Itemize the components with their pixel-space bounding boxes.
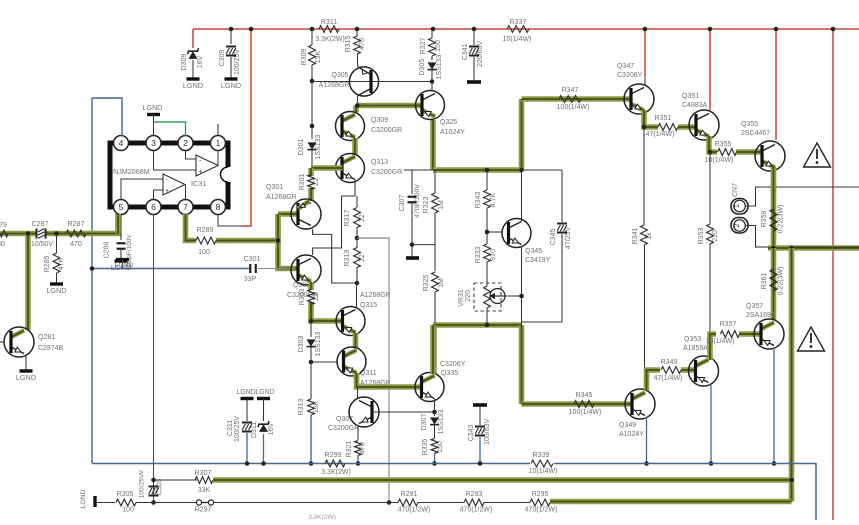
svg-text:C3206Y: C3206Y — [617, 72, 643, 79]
wire Q309 emitter to Q313 collector (olive) — [352, 138, 358, 155]
ground bar on LGND rail — [116, 258, 129, 261]
wire red drop to Q355 collector — [775, 29, 777, 140]
wire C343 top — [479, 405, 481, 425]
wire R305 to R297 — [136, 502, 197, 504]
svg-text:R309: R309 — [301, 49, 308, 66]
junction on +V rail x=433 — [431, 27, 436, 32]
svg-text:D307: D307 — [421, 414, 428, 431]
wire input line (olive, left edge) — [0, 231, 36, 237]
transistor Q349 — [632, 393, 645, 400]
capacitor C341 — [469, 46, 479, 48]
svg-text:3.3K(2W): 3.3K(2W) — [308, 514, 336, 520]
transistor Q355 — [762, 145, 775, 152]
resistor R293 — [464, 499, 484, 506]
resistor R321 — [355, 441, 362, 456]
resistor R311 — [319, 26, 339, 33]
svg-text:100(1/4W): 100(1/4W) — [569, 409, 602, 416]
trimmer VR31 resistor element — [484, 286, 491, 308]
svg-text:Q345: Q345 — [525, 248, 542, 255]
wire VR31 wiper to emitter column — [505, 295, 522, 297]
svg-text:R313: R313 — [298, 399, 305, 416]
junction on +V rail x=251 — [249, 27, 254, 32]
transistor Q309 — [342, 115, 355, 122]
wire Q281 base lead — [0, 341, 4, 343]
wire olive to Q347 base — [522, 96, 631, 102]
svg-text:Q315: Q315 — [360, 302, 377, 309]
svg-text:R335: R335 — [422, 439, 429, 456]
wire Q301 base lead (olive) — [278, 211, 297, 217]
svg-text:22: 22 — [313, 178, 320, 186]
svg-text:C343: C343 — [468, 425, 475, 442]
wire LGND blue rail bottom right — [554, 464, 816, 521]
transistor Q311 — [344, 350, 357, 357]
junction on +V rail x=776 — [774, 27, 779, 32]
svg-text:R285: R285 — [44, 256, 51, 273]
wire Q307 emitter to R321 — [357, 426, 359, 440]
svg-text:R337: R337 — [510, 19, 527, 26]
wire R317 to R319 — [356, 227, 358, 248]
svg-text:D309: D309 — [181, 54, 188, 71]
svg-text:R289: R289 — [197, 227, 214, 234]
transistor Q307 — [359, 401, 372, 408]
wire R321 to blue rail — [357, 455, 359, 464]
wire R325 to olive — [434, 292, 436, 323]
resistor R287 — [66, 230, 86, 237]
svg-text:R325: R325 — [423, 275, 430, 292]
svg-text:LGND: LGND — [115, 262, 134, 269]
svg-text:79: 79 — [0, 222, 7, 229]
IC31 pin 7 — [178, 200, 193, 215]
resistor R341 — [641, 225, 648, 245]
resistor R299 — [325, 460, 345, 467]
IC31 pin 5 — [114, 200, 129, 215]
svg-text:22: 22 — [359, 254, 366, 262]
svg-text:D305: D305 — [419, 59, 426, 76]
diode D301 — [308, 142, 317, 149]
wire IC pin7 to opampB out — [185, 185, 187, 201]
junction output node — [771, 246, 776, 251]
IC31 notch — [223, 167, 233, 182]
wire C343 to blue rail — [479, 437, 481, 464]
wire output return olive y=501.5 — [550, 499, 792, 505]
wire node to D301 — [311, 126, 313, 139]
svg-text:1k: 1k — [646, 232, 653, 240]
resistor R291 — [398, 499, 418, 506]
wire Q303 collector up — [313, 196, 342, 255]
diode D307 — [430, 417, 439, 424]
junction output bus corner — [789, 246, 794, 251]
svg-text:R321: R321 — [346, 441, 353, 458]
wire base node to Q345 — [487, 231, 502, 233]
wire C311 to blue rail — [246, 433, 248, 464]
wire lower olive horizontal y=325 — [433, 322, 522, 328]
svg-text:470(1/2W): 470(1/2W) — [398, 507, 431, 514]
wire D303 to Q311 base node — [310, 347, 312, 362]
ground bar bottom left — [93, 496, 96, 507]
wire red drop to Q347 collector — [644, 29, 646, 77]
zener diode D311 — [259, 424, 268, 432]
wire IC pin8 to +V — [218, 214, 242, 226]
resistor R335 — [431, 439, 438, 454]
junction on +V rail x=710 — [708, 27, 713, 32]
wire olive drop into Q309 collector — [353, 106, 359, 113]
svg-text:470P/100V: 470P/100V — [414, 184, 421, 218]
wire speaker line bottom — [755, 246, 768, 248]
IC31 pin 8 — [211, 200, 226, 215]
ground LGND below C309 — [225, 77, 238, 80]
svg-text:R327: R327 — [420, 38, 427, 55]
svg-text:R351: R351 — [655, 115, 672, 122]
wire D311 to blue rail — [263, 434, 265, 464]
wire Q335 emitter down — [434, 399, 436, 416]
svg-text:910: 910 — [490, 249, 497, 261]
svg-text:+: + — [199, 169, 203, 176]
wire Q311 emitter to Q335 base (olive) — [357, 373, 421, 387]
wire R327 to D305 — [431, 56, 433, 60]
wire R293 to R295 — [484, 502, 530, 504]
resistor R349 — [661, 367, 681, 374]
svg-text:R345: R345 — [576, 392, 593, 399]
zener diode D309 — [189, 51, 198, 59]
junction Q311 base node — [309, 360, 314, 365]
junction Q353/blue rail — [709, 461, 714, 466]
trimmer VR31 dashed box — [474, 283, 501, 311]
junction Q315 base node — [309, 319, 314, 324]
junction C311/blue rail — [245, 461, 250, 466]
wire Q303 emitter to R303 (olive) — [308, 282, 314, 290]
svg-text:Q347: Q347 — [617, 63, 634, 70]
svg-text:100/25V: 100/25V — [234, 49, 241, 75]
svg-text:D311: D311 — [251, 422, 258, 438]
resistor R305 — [116, 499, 136, 506]
wire Q351 emitter to R355 (olive) — [709, 136, 717, 152]
svg-text:10(1/4W): 10(1/4W) — [706, 338, 735, 345]
resistor R289 — [196, 237, 216, 244]
wire R301 lower riser (olive) — [308, 188, 314, 201]
svg-text:Q349: Q349 — [619, 422, 636, 429]
wire R309 to Q309 base node — [311, 65, 313, 126]
wire CN7 pin1 lead — [746, 187, 756, 206]
svg-text:R323: R323 — [423, 197, 430, 214]
svg-text:LGND: LGND — [16, 373, 36, 382]
junction R353 top — [708, 150, 713, 155]
svg-text:3: 3 — [151, 138, 156, 148]
wire Q353 top to R357 (olive) — [710, 334, 716, 360]
transistor Q335 — [422, 376, 435, 383]
wire Q301 collector path — [313, 229, 357, 283]
wire blue rail to IC pin4 — [92, 98, 122, 136]
wire pin7 to R289 (olive) — [186, 214, 197, 241]
svg-text:10(1/4W): 10(1/4W) — [529, 468, 558, 475]
wire Q305 collector to signal node — [357, 95, 360, 106]
resistor R345 — [574, 401, 594, 408]
svg-text:3.3K(2W): 3.3K(2W) — [315, 36, 345, 43]
wire output node to R361 (olive) — [771, 248, 777, 320]
wire R341 to Q349 collector — [644, 245, 646, 387]
junction R321/blue rail — [356, 461, 361, 466]
wire rail to R309 — [311, 29, 313, 45]
wire rail to C341 — [473, 29, 475, 45]
svg-text:1SS133: 1SS133 — [315, 134, 322, 159]
resistor R309 — [309, 45, 316, 65]
svg-text:470: 470 — [70, 241, 82, 248]
ground LGND above IC pin3 — [147, 113, 160, 116]
junction olive/Q305 collector — [355, 103, 360, 108]
wire Q313 emitter node to R317 — [356, 196, 358, 207]
wire C301 to Q303 base — [256, 268, 295, 270]
svg-text:1SS133: 1SS133 — [438, 409, 445, 434]
resistor R295 — [530, 499, 550, 506]
wire output bus down (olive) — [789, 248, 795, 502]
wire C307/R323 top line — [404, 169, 433, 171]
svg-text:+: + — [165, 188, 169, 195]
capacitor C345 — [557, 223, 567, 225]
wire IC pin1 to opampA out — [217, 150, 219, 166]
IC31 pin 1 — [211, 136, 226, 151]
svg-text:30: 30 — [0, 241, 5, 248]
svg-text:7: 7 — [183, 202, 188, 212]
svg-text:5: 5 — [119, 202, 124, 212]
junction C307 bottom node — [410, 242, 415, 247]
olive emitter diag Q301 — [298, 201, 309, 209]
wire olive over speaker line crossing — [771, 181, 777, 194]
wire LGND blue rail bottom — [92, 463, 530, 465]
wire D309 to ground — [192, 60, 194, 78]
svg-text:LGND: LGND — [143, 105, 162, 112]
resistor R355 — [718, 149, 737, 156]
svg-text:R349: R349 — [661, 359, 678, 366]
wire R301 riser (olive) — [308, 168, 314, 176]
wire C309 to ground — [230, 57, 232, 78]
wire node to R353 — [709, 152, 711, 224]
wire R315 to Q305 emitter — [357, 54, 360, 67]
resistor R319 — [354, 248, 361, 268]
junction R343 top — [485, 168, 490, 173]
wire blue left rail down — [91, 98, 93, 463]
wire Q325 emitter loop (olive) — [430, 120, 436, 170]
resistor R333 — [484, 244, 491, 262]
wire Q357 emitter to blue rail — [773, 347, 775, 464]
svg-text:100(1/4W): 100(1/4W) — [557, 104, 590, 111]
svg-text:16V: 16V — [197, 55, 204, 68]
junction C343/blue rail — [478, 461, 483, 466]
wire node to R313 — [310, 362, 312, 399]
wire LGND stub to pin3 — [153, 115, 155, 136]
junction D311/blue rail — [261, 461, 266, 466]
svg-text:R303: R303 — [299, 289, 306, 306]
junction R317/R319 feedback tap — [355, 236, 360, 241]
svg-text:NJM2068M: NJM2068M — [113, 167, 150, 176]
IC U-IC31 NJM2068M body — [110, 143, 228, 207]
svg-text:22: 22 — [313, 293, 320, 301]
svg-text:Q353: Q353 — [684, 336, 701, 343]
svg-text:R311: R311 — [321, 19, 337, 26]
svg-text:150: 150 — [435, 40, 442, 52]
wire D301 to R301 node — [311, 150, 313, 168]
svg-text:Q305: Q305 — [331, 72, 348, 79]
ground LGND below Q281 — [20, 369, 33, 372]
wire olive branch down to Q281 — [25, 234, 31, 331]
junction olive rail/output bus — [789, 478, 794, 483]
svg-text:D301: D301 — [298, 139, 305, 156]
wire speaker line top — [755, 186, 859, 188]
wire -feedback olive rail y=480 — [213, 477, 792, 483]
svg-text:R307: R307 — [195, 470, 212, 477]
svg-text:Q281: Q281 — [38, 334, 55, 341]
junction on +V rail x=231 — [229, 27, 234, 32]
wire R355 to Q355 base (olive) — [736, 149, 761, 155]
junction D305/Q305 collector — [430, 79, 435, 84]
svg-text:LGND: LGND — [236, 389, 255, 396]
svg-text:LGND: LGND — [255, 389, 274, 396]
IC31 pin 6 — [146, 200, 161, 215]
resistor R317 — [354, 208, 361, 228]
capacitor C305 — [149, 486, 159, 488]
wire Q281 emitter to ground — [25, 355, 27, 370]
wire pin5 olive corner — [115, 214, 121, 234]
svg-text:0.22(3W): 0.22(3W) — [778, 205, 785, 234]
svg-text:R291: R291 — [401, 491, 418, 498]
capacitor C301 — [249, 264, 251, 273]
wire IC pin5 to opampB inv — [121, 179, 163, 200]
svg-text:C3200GR: C3200GR — [371, 127, 402, 134]
resistor R303 — [308, 290, 315, 305]
svg-text:Q355: Q355 — [741, 121, 758, 128]
svg-text:3.3K(2W): 3.3K(2W) — [321, 469, 351, 476]
wire C345 bottom — [561, 234, 563, 322]
svg-text:C3206Y: C3206Y — [440, 361, 466, 368]
svg-text:0.22(3W): 0.22(3W) — [778, 267, 785, 296]
wire speaker line bottom right — [794, 246, 859, 248]
svg-text:Q351: Q351 — [682, 93, 699, 100]
resistor R339 — [531, 460, 553, 467]
wire feedback tap to bottom rail — [357, 238, 389, 503]
svg-text:10(1/4W): 10(1/4W) — [705, 157, 734, 164]
junction emitter/VR31 wiper — [519, 294, 524, 299]
svg-text:R305: R305 — [117, 491, 134, 498]
wire R323 to R325 — [434, 213, 436, 271]
wire Q347 emitter to R351 (olive) — [644, 110, 658, 127]
svg-text:220: 220 — [465, 290, 472, 302]
wire Q355 emitter down (olive) — [771, 167, 777, 248]
junction on +V rail x=357 — [355, 27, 360, 32]
wire top to C307 — [411, 170, 413, 194]
junction R335/blue rail — [432, 461, 437, 466]
svg-text:C345: C345 — [550, 229, 557, 246]
svg-text:LGND: LGND — [46, 286, 66, 295]
connector CN7 pin 1 — [731, 199, 748, 215]
wire Q305 base lead — [312, 81, 432, 83]
resistor R279 (edge, partial) — [0, 230, 8, 237]
junction on +V rail x=645 — [643, 27, 648, 32]
svg-text:R317: R317 — [344, 210, 351, 227]
svg-text:1SS133: 1SS133 — [436, 54, 443, 79]
svg-text:C289: C289 — [104, 242, 111, 259]
wire D305 to Q325 collector — [431, 70, 433, 91]
transistor Q315 — [343, 310, 356, 317]
svg-text:C301: C301 — [244, 256, 261, 263]
wire Q349 emitter to blue rail — [646, 417, 648, 464]
IC31 pin 2 — [178, 136, 193, 151]
junction on +V rail x=312 — [310, 27, 315, 32]
resistor R351 — [658, 124, 678, 131]
junction R319 bottom node — [355, 281, 360, 286]
svg-text:R353: R353 — [698, 228, 705, 245]
wire red drop to IC pin8 node — [241, 29, 251, 226]
wire olive riser x=521.5 — [519, 99, 525, 170]
transistor Q305 — [358, 67, 370, 74]
junction C305 bottom — [151, 500, 156, 505]
junction R289/feedback node — [276, 238, 281, 243]
wire rail to R315 — [356, 29, 358, 36]
ground bar above C311 — [241, 397, 254, 400]
wire pin5 to C289 — [120, 214, 122, 240]
wire Q313 emitter drop — [342, 180, 356, 196]
wire red rail branch x=833 — [832, 29, 834, 520]
svg-text:C2874B: C2874B — [38, 345, 64, 352]
wire red drop to D309 — [192, 29, 194, 48]
resistor R357 — [721, 331, 740, 338]
ground bar below C341 — [467, 80, 481, 84]
diode D305 — [428, 62, 437, 69]
wire bias box right side — [561, 170, 563, 222]
junction blue rail left — [90, 266, 95, 271]
wire C311 top — [246, 399, 248, 422]
svg-text:C311: C311 — [227, 420, 234, 436]
wire olive riser to Q335 — [430, 325, 436, 374]
wire R289 to Q301 riser (olive) — [216, 214, 278, 241]
wire Q301 node down to Q303 base (olive) — [278, 214, 297, 269]
wire IC pin2 to opampA inv — [186, 150, 197, 159]
svg-text:R359: R359 — [761, 211, 768, 228]
IC31 pin 3 — [146, 136, 161, 151]
svg-text:C341: C341 — [462, 44, 469, 61]
capacitor C287 — [36, 229, 38, 239]
wire node down to Q315 collector — [356, 283, 358, 308]
wire VR31 bottom to olive — [486, 308, 488, 325]
wire input line after C287 — [46, 214, 118, 234]
svg-text:Q335: Q335 — [441, 370, 458, 377]
svg-text:220/63V: 220/63V — [477, 41, 484, 67]
capacitor C289 — [117, 242, 126, 244]
wire R291 to R293 — [418, 502, 464, 504]
ground bar above D311 — [257, 397, 270, 400]
wire CN7 pin2 lead — [746, 226, 756, 248]
wire olive to R343 — [486, 170, 488, 190]
wire output node to Q307 collector — [357, 387, 359, 398]
wire signal path Q305/Q309 node to Q325 base (olive) — [357, 103, 422, 109]
svg-text:R295: R295 — [532, 491, 549, 498]
wire LGND rail (blue) — [92, 268, 249, 270]
svg-text:47(1/4W): 47(1/4W) — [654, 375, 683, 382]
svg-text:R361: R361 — [761, 273, 768, 290]
resistor R337 — [507, 26, 529, 33]
resistor R325 — [432, 272, 439, 292]
wire bias box top — [522, 169, 563, 171]
svg-text:10(1/4W): 10(1/4W) — [503, 36, 532, 43]
svg-text:R315: R315 — [345, 36, 352, 53]
svg-text:4: 4 — [119, 138, 124, 148]
wire olive horizontal y=170 — [433, 167, 522, 173]
svg-text:R355: R355 — [715, 141, 732, 148]
resistor R327 — [429, 38, 436, 56]
junction Q349/blue rail — [644, 461, 649, 466]
svg-text:R343: R343 — [475, 192, 482, 209]
junction VR31 bottom — [485, 323, 490, 328]
wire R343 to Q345 base node — [486, 208, 488, 244]
svg-text:8: 8 — [216, 202, 221, 212]
svg-text:6: 6 — [151, 202, 156, 212]
